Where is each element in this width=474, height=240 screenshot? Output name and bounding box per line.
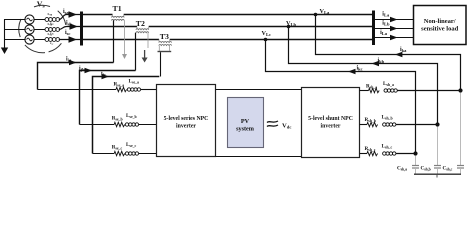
series inverter box U1: [157, 85, 216, 157]
arrow T1 lead down: [122, 54, 127, 59]
svg-text:Lse_b: Lse_b: [126, 113, 137, 119]
inductor Lsh_c: [382, 144, 396, 156]
node C junction dot: [413, 151, 417, 155]
svg-text:ijb: ijb: [79, 66, 85, 72]
capacitor Csh_b: [434, 166, 441, 174]
svg-text:Lsa: Lsa: [48, 12, 53, 17]
svg-text:isb: isb: [66, 21, 72, 27]
load busbar: [372, 11, 375, 46]
arrow i_jb: [85, 68, 93, 74]
svg-text:Lse_a: Lse_a: [129, 79, 140, 85]
wire series branch a: [38, 89, 117, 91]
arrow i_jc: [102, 74, 110, 80]
inductor Lsa: [45, 12, 60, 25]
svg-text:Lsh_a: Lsh_a: [383, 81, 394, 87]
arrow i_sa: [69, 11, 78, 17]
wire branch c to node C: [396, 153, 416, 155]
wire series branch c: [93, 153, 115, 155]
wire i_jc horizontal: [93, 77, 160, 154]
svg-text:Lsb: Lsb: [48, 22, 53, 27]
arrow i_Lc: [390, 35, 398, 41]
wire DC link top: [216, 89, 302, 91]
node tap a dot: [314, 13, 318, 17]
wire branch a to box: [141, 89, 157, 91]
wire curve a to bus: [59, 15, 80, 20]
arrow i_ja: [69, 60, 77, 66]
svg-text:T2: T2: [136, 19, 145, 28]
wire T2 secondary left lead: [135, 33, 137, 71]
ground stub below bar: [436, 175, 438, 178]
svg-text:VLb: VLb: [286, 20, 297, 27]
svg-text:T3: T3: [160, 32, 169, 41]
svg-text:5-level series NPC: 5-level series NPC: [164, 116, 209, 122]
PCC busbar: [80, 12, 83, 46]
wire branch a to node A: [397, 90, 460, 92]
wire load line c: [375, 37, 414, 39]
load box: [414, 6, 467, 45]
resistor Rsh_b: [367, 122, 378, 126]
capacitor common bar: [414, 174, 461, 175]
svg-text:iLa: iLa: [380, 30, 388, 36]
inductor Lsh_b: [382, 115, 396, 127]
capacitor Csh_c: [457, 166, 464, 174]
AC source phase b: [25, 25, 34, 34]
ground: [1, 20, 8, 55]
svg-text:ikb: ikb: [378, 58, 385, 64]
arrow i_sc: [69, 36, 78, 42]
wire phase c right segment: [170, 39, 372, 41]
wire T1 secondary left lead: [113, 20, 115, 62]
AC source phase a: [25, 15, 34, 24]
svg-text:inverter: inverter: [176, 124, 196, 130]
wire phase a left segment: [83, 14, 113, 16]
arrow i_kb: [372, 61, 380, 67]
wire node B to capacitor: [437, 127, 439, 165]
svg-text:Csh,c: Csh,c: [443, 166, 453, 172]
DC symbol: [267, 121, 278, 127]
svg-text:5-level shunt NPC: 5-level shunt NPC: [308, 116, 353, 122]
svg-text:iLb: iLb: [382, 21, 390, 27]
PV system box: [228, 98, 264, 148]
resistor Rse_c: [114, 151, 125, 155]
transformer T3: [158, 32, 172, 52]
svg-text:Rse_b: Rse_b: [112, 116, 123, 122]
node tap c dot: [264, 38, 268, 42]
svg-text:sensitive load: sensitive load: [421, 26, 458, 33]
inductor Lsc: [45, 32, 60, 45]
svg-text:Lsh_b: Lsh_b: [382, 115, 393, 121]
svg-text:PV: PV: [241, 118, 250, 125]
wire i_ka: [316, 15, 461, 91]
svg-text:Vdc: Vdc: [282, 123, 291, 130]
svg-text:Rse_c: Rse_c: [112, 145, 123, 151]
svg-text:Rsh_c: Rsh_c: [365, 146, 376, 152]
svg-text:system: system: [236, 126, 255, 133]
wire T1 secondary right lead: [124, 20, 126, 54]
inductor Lsb: [45, 22, 60, 35]
arrow T2 lead down: [142, 50, 148, 63]
resistor Rsh_c: [367, 151, 378, 155]
wire source b: [34, 29, 45, 31]
svg-text:Vs: Vs: [37, 0, 46, 9]
resistor Rse_a: [116, 87, 127, 91]
inductor Lse_b: [125, 113, 138, 126]
wire branch b to box: [139, 124, 157, 126]
svg-text:Rse_a: Rse_a: [114, 82, 125, 88]
resistor Rse_b: [114, 122, 125, 126]
wire shunt branch c: [360, 153, 368, 155]
svg-text:VLc: VLc: [262, 30, 272, 37]
svg-text:isa: isa: [63, 9, 69, 15]
wire DC link bottom: [216, 156, 302, 158]
wire T2 secondary right lead: [147, 33, 149, 48]
resistor Rsh_a: [369, 88, 380, 92]
wire i_jb horizontal: [80, 71, 136, 125]
svg-text:Lse_c: Lse_c: [126, 142, 137, 148]
svg-text:Lsh_c: Lsh_c: [382, 144, 393, 150]
svg-text:Csh,b: Csh,b: [421, 166, 431, 172]
wire source c: [34, 39, 45, 41]
svg-text:iLa: iLa: [382, 11, 390, 17]
wire source a: [34, 19, 45, 21]
svg-text:Csh,a: Csh,a: [397, 166, 407, 172]
svg-text:ika: ika: [400, 47, 407, 53]
svg-text:ikc: ikc: [357, 66, 363, 72]
inductor Lse_c: [125, 142, 138, 155]
svg-text:inverter: inverter: [321, 124, 341, 130]
wire curve c to bus: [59, 39, 80, 41]
wire T3 secondary left lead: [160, 52, 162, 76]
wire load line a: [375, 19, 414, 21]
wire phase c left segment: [83, 39, 159, 41]
wire phase a right segment: [124, 14, 372, 16]
wire branch b to node B: [396, 124, 438, 126]
svg-text:VLa: VLa: [320, 8, 331, 15]
arrow i_Lb: [390, 26, 398, 32]
wire node A to capacitor: [460, 93, 462, 165]
svg-text:isc: isc: [65, 30, 70, 36]
wire i_ja horizontal: [38, 63, 114, 90]
wire shunt branch a: [360, 90, 369, 92]
wire phase b right segment: [149, 26, 372, 28]
node A junction dot: [458, 88, 462, 92]
wire i_kc: [266, 40, 416, 154]
arrow i_sb: [70, 23, 79, 29]
wire shunt branch b: [360, 124, 368, 126]
wire i_kb: [289, 27, 438, 125]
svg-text:Non-linear/: Non-linear/: [424, 18, 456, 25]
wire phase b left segment: [83, 26, 137, 28]
svg-text:Rsh_b: Rsh_b: [365, 117, 376, 123]
wire load line b: [375, 28, 414, 30]
wire series branch b: [80, 124, 115, 126]
node B junction dot: [435, 122, 439, 126]
arrow i_ka: [395, 52, 403, 58]
inductor Lsh_a: [383, 81, 397, 92]
wire branch c to box: [139, 153, 157, 155]
arrow i_kc: [348, 69, 356, 75]
transformer T1: [111, 4, 124, 20]
svg-text:T1: T1: [113, 4, 122, 13]
neutral wire: [4, 20, 26, 40]
capacitor Csh_a: [412, 166, 419, 174]
svg-text:Rsh_a: Rsh_a: [366, 84, 377, 90]
svg-text:rsc: rsc: [50, 41, 53, 46]
svg-text:ija: ija: [66, 56, 72, 62]
AC source phase c: [25, 35, 34, 44]
inductor Lse_a: [127, 79, 140, 92]
arrow i_La: [390, 17, 398, 23]
svg-text:ijc: ijc: [101, 71, 106, 77]
wire node C to capacitor: [415, 156, 417, 165]
wire curve b to bus: [59, 27, 80, 30]
dashed source circle: [19, 5, 66, 52]
node tap b dot: [287, 25, 291, 29]
shunt inverter box U2: [302, 88, 360, 158]
transformer T2: [136, 19, 149, 33]
